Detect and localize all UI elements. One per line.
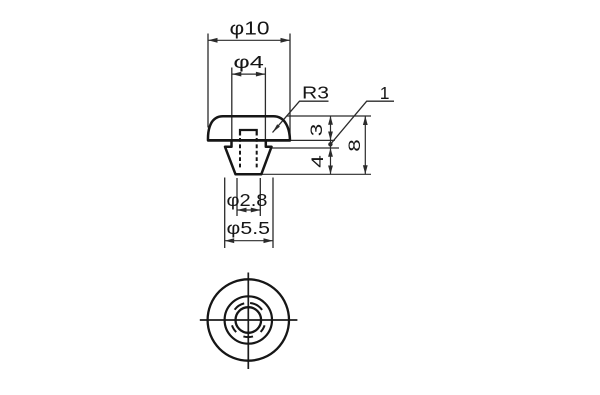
dimension 8 vertical line with arrows bbox=[363, 116, 368, 174]
extension line part bottom right bbox=[261, 173, 371, 175]
part outline: neck and barb and taper bbox=[225, 140, 272, 174]
extension line dome top right bbox=[287, 115, 371, 117]
svg-text:φ4: φ4 bbox=[233, 52, 264, 72]
svg-text:8: 8 bbox=[345, 139, 364, 152]
leader R3 bbox=[273, 101, 329, 132]
dimension phi10 extension lines bbox=[208, 34, 290, 140]
bottom view broken arcs (phi4) bbox=[232, 303, 265, 337]
hidden hole lines (dashed) bbox=[240, 138, 257, 170]
bottom view outer circle (head phi10) bbox=[208, 279, 289, 360]
part outline: head bottom line bbox=[208, 139, 290, 142]
dimension phi4 line with arrows bbox=[232, 72, 266, 77]
svg-text:φ5.5: φ5.5 bbox=[227, 218, 271, 238]
dimension phi5.5 extension lines bbox=[225, 178, 273, 249]
svg-text:1: 1 bbox=[380, 83, 390, 103]
svg-text:3: 3 bbox=[307, 124, 326, 137]
dimension phi2.8 line with arrows bbox=[237, 208, 260, 213]
leader 1 (with dot) bbox=[330, 101, 394, 144]
svg-text:φ2.8: φ2.8 bbox=[227, 190, 268, 210]
dimension phi10 line with arrows bbox=[208, 38, 290, 43]
extension line head bottom right bbox=[290, 139, 335, 141]
bottom view middle circle (phi5.5) bbox=[225, 296, 272, 343]
svg-text:4: 4 bbox=[308, 155, 327, 168]
bottom view centerlines bbox=[200, 273, 298, 370]
dimension phi4 extension lines bbox=[232, 68, 266, 140]
dimension phi5.5 line with arrows bbox=[225, 238, 273, 243]
svg-text:R3: R3 bbox=[302, 82, 329, 102]
inner slot (solid) bbox=[240, 130, 257, 136]
dimension phi2.8 extension lines bbox=[237, 178, 260, 216]
svg-text:φ10: φ10 bbox=[230, 18, 270, 38]
dimension 3 vertical line with arrows bbox=[328, 116, 333, 174]
dimension 4 vertical line with arrows bbox=[328, 148, 333, 174]
extension line barb top right bbox=[272, 147, 340, 149]
bottom view inner circle (phi2.8 hole) bbox=[236, 307, 262, 333]
part outline: dome head bbox=[208, 116, 290, 140]
